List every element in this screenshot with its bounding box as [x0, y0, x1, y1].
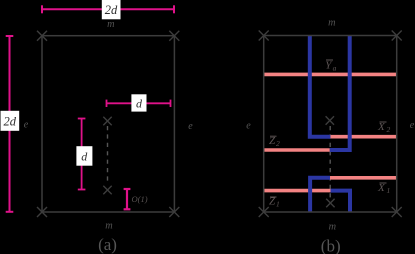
dashed cut line panel a [107, 126, 109, 184]
operator label Xbar_2 [377, 121, 391, 134]
svg-text:2: 2 [387, 125, 391, 134]
corner X bottom-left panel a [37, 207, 47, 217]
corner X bottom-left panel b [259, 207, 269, 217]
caption (a) [98, 235, 117, 254]
svg-text:1: 1 [387, 186, 391, 195]
patch boundary square panel b [264, 36, 397, 213]
blue path bottom-right strand [331, 191, 351, 212]
boundary label m bottom panel a [105, 221, 112, 232]
svg-text:m: m [105, 221, 112, 232]
svg-text:e: e [24, 120, 29, 131]
logical operator X1 pink line [330, 176, 397, 180]
logical operator Z2 pink line [264, 148, 330, 152]
corner X bottom-right panel b [392, 207, 402, 217]
center twist X panel b [326, 116, 334, 124]
svg-text:d: d [136, 96, 143, 110]
boundary label e right panel b [410, 120, 415, 131]
svg-text:2d: 2d [4, 114, 17, 128]
boundary label e left panel a [24, 120, 29, 131]
svg-text:m: m [107, 19, 114, 30]
blue path bottom-left strand [310, 178, 330, 212]
svg-text:X: X [377, 121, 386, 133]
svg-text:1: 1 [276, 200, 280, 209]
dimension d vertical: white label box [76, 146, 92, 166]
svg-text:a: a [333, 64, 337, 73]
boundary label e right panel a [188, 121, 193, 132]
corner X top-left panel a [37, 31, 47, 41]
dimension 2d left: white label box [1, 111, 20, 131]
svg-text:2: 2 [276, 139, 280, 148]
corner X top-left panel b [259, 31, 269, 41]
corner X bottom-right panel a [169, 207, 179, 217]
operator label Zbar_1 [269, 195, 280, 208]
dimension O(1) bottom: line with end ticks [124, 189, 131, 209]
svg-text:X: X [377, 182, 386, 194]
svg-text:e: e [188, 121, 193, 132]
blue path right strand (top) [330, 36, 350, 151]
corner X top-right panel b [392, 31, 402, 41]
dimension 2d top: white label box [102, 0, 121, 19]
svg-text:m: m [328, 18, 335, 29]
operator label Xbar_1 [377, 182, 390, 195]
lower twist X panel a [103, 186, 111, 194]
dimension d vertical: line with end ticks [78, 119, 86, 190]
corner X top-right panel a [169, 31, 179, 41]
logical operator Y_a pink line [264, 73, 397, 77]
dimension O(1) label [132, 194, 148, 204]
operator label Ybar_a [325, 59, 336, 72]
svg-text:e: e [246, 121, 251, 132]
boundary label e left panel b [246, 121, 251, 132]
operator label Zbar_2 [269, 135, 280, 148]
boundary label m top panel a [107, 19, 114, 30]
svg-text:(a): (a) [98, 235, 117, 254]
boundary label m bottom panel b [329, 222, 336, 233]
svg-text:O(1): O(1) [132, 194, 148, 204]
blue path left strand (top) [310, 36, 331, 137]
patch boundary square panel a [42, 36, 174, 212]
svg-text:d: d [81, 150, 88, 164]
svg-text:m: m [329, 222, 336, 233]
logical operator X2 pink line [330, 135, 396, 139]
dimension d horizontal: white label box [131, 94, 146, 111]
svg-text:(b): (b) [321, 237, 341, 254]
lower twist X panel b [326, 199, 334, 207]
dimension 2d left: line with end ticks [6, 36, 14, 212]
caption (b) [321, 237, 341, 254]
svg-text:2d: 2d [105, 3, 118, 17]
logical operator Z1 pink line [264, 189, 331, 193]
svg-text:e: e [410, 120, 415, 131]
boundary label m top panel b [328, 18, 335, 29]
dimension d horizontal: line with end ticks [107, 100, 171, 107]
dimension 2d top: line with end ticks [42, 5, 174, 13]
dashed cut line panel b [329, 126, 331, 199]
center twist X panel a [103, 117, 111, 125]
